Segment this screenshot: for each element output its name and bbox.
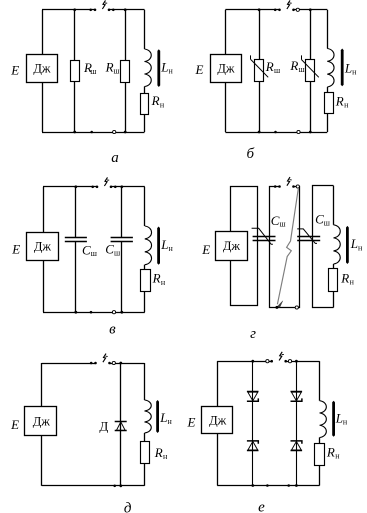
generator box Дж (g) (216, 232, 248, 261)
wire branch 2 vertical (a) (125, 10, 127, 132)
capacitor Csh2 nonlinearity stroke (g) (297, 229, 317, 244)
svg-text:E: E (10, 63, 19, 78)
zener diode bottom: triangle up (e) (248, 441, 258, 450)
svg-text:R: R (152, 271, 161, 286)
inductor core bar (d) (156, 400, 159, 433)
wire load branch upper (d) (144, 363, 146, 400)
svg-text:ш: ш (299, 65, 306, 74)
resistor Rn (g) (329, 269, 338, 292)
wire left vertical upper (a) (42, 10, 44, 55)
wire Rn to bottom rail (v) (144, 292, 146, 312)
svg-text:а: а (111, 150, 119, 166)
svg-text:н: н (160, 100, 165, 109)
svg-text:ш: ш (90, 67, 97, 76)
svg-text:н: н (358, 243, 363, 252)
varistor Rsh1 end tick (b) (250, 55, 252, 59)
zener diode bottom: anode bar (e) (247, 450, 259, 452)
svg-text:Дж: Дж (33, 62, 51, 76)
svg-text:н: н (335, 451, 340, 460)
spark arrow head (g) (277, 301, 283, 307)
svg-text:ш: ш (113, 66, 120, 75)
node dot on bottom rail (a) (90, 131, 93, 134)
junction dot branch1 bottom (a) (73, 131, 76, 134)
capacitor Csh1 nonlinearity stroke (g) (252, 228, 273, 244)
wire top rail right segment (d) (110, 363, 145, 365)
junction dot branch1 bottom (e) (251, 484, 254, 487)
wire branch 2 upper (v) (121, 187, 123, 238)
switch contact dots (left) (91, 186, 94, 189)
wire left vertical upper (v) (43, 187, 45, 232)
svg-text:R: R (265, 59, 274, 74)
junction dot diode branch top (d) (119, 362, 122, 365)
varistor Rsh1 diagonal stroke (b) (251, 60, 268, 78)
wire Rn to bottom rail (d) (144, 464, 146, 486)
zener diode top: anode bar (e) (291, 391, 303, 393)
switch contact dots (right) (292, 185, 295, 188)
inductor Ln coil (a) (145, 49, 152, 87)
generator box Дж (d) (25, 407, 57, 436)
wire Rn to bottom rail (a) (144, 114, 146, 132)
wire left vertical upper (d) (41, 363, 43, 407)
switch blade (279, 352, 282, 361)
zener diode top: anode bar (e) (247, 391, 259, 393)
switch blade (103, 354, 106, 363)
svg-text:ш: ш (114, 248, 121, 257)
wire left vertical lower (d) (41, 435, 43, 485)
wire branch 2 vertical (b) (310, 10, 312, 132)
junction dot branch1 top (v) (74, 185, 77, 188)
svg-text:E: E (195, 62, 204, 77)
zener diode bottom: triangle up (e) (292, 441, 302, 450)
junction dot branch2 top (b) (309, 8, 312, 11)
switch contact dots (left) (274, 185, 277, 188)
switch contact dots (left) (90, 362, 93, 365)
wire left vertical upper (e) (217, 361, 219, 406)
svg-text:н: н (169, 244, 174, 253)
wire top rail left segment (v) (43, 186, 97, 188)
svg-text:Дж: Дж (33, 414, 51, 428)
junction dot branch1 bottom (b) (258, 131, 261, 134)
svg-text:Дж: Дж (217, 62, 235, 76)
svg-text:н: н (350, 278, 355, 287)
svg-text:L: L (160, 60, 168, 75)
svg-text:ш: ш (324, 219, 331, 228)
resistor Rn (d) (141, 442, 150, 464)
inductor Ln coil (b) (327, 49, 334, 87)
wire bottom rail (b) (225, 132, 327, 134)
svg-text:R: R (154, 445, 163, 460)
junction dot branch1 top (e) (251, 360, 254, 363)
varistor Rsh2 end tick (b) (301, 55, 303, 59)
svg-text:E: E (10, 417, 19, 432)
junction dot branch2 bottom (v) (120, 311, 123, 314)
junction dot branch2 bottom (e) (295, 484, 298, 487)
wire bottom rail (v) (43, 312, 145, 314)
svg-text:Дж: Дж (223, 239, 241, 253)
source loop rectangle (g) (231, 187, 258, 306)
resistor Rsh2 (a) (121, 61, 130, 83)
varistor Rsh2 body (b) (306, 60, 315, 82)
wire bottom rail (a) (42, 132, 145, 134)
wire coil to Rn (e) (319, 438, 321, 444)
capacitor Csh2 plates (v) (111, 237, 133, 239)
junction dot branch2 bottom (a) (124, 131, 127, 134)
zener diode bottom: anode bar (e) (291, 450, 303, 452)
junction dot branch2 top (v) (120, 185, 123, 188)
load loop right side upper wire (g) (333, 186, 335, 225)
svg-text:д: д (124, 501, 132, 513)
load loop left/top/bottom sides (g) (313, 186, 334, 308)
wire top rail left segment (b) (225, 9, 279, 11)
zener diode top: cathode bar with hook (e) (247, 398, 258, 401)
junction dot branch1 top (a) (73, 8, 76, 11)
wire top rail left segment (e) (217, 361, 272, 363)
svg-text:R: R (289, 58, 298, 73)
svg-text:ш: ш (274, 66, 281, 75)
junction dot branch1 bottom (v) (74, 311, 77, 314)
switch contact dots (right) (108, 362, 111, 365)
svg-text:R: R (335, 93, 344, 108)
open contact node on bottom rail (b) (297, 130, 300, 133)
svg-text:н: н (169, 67, 174, 76)
wire branch 1 vertical (b) (259, 10, 261, 132)
wire bottom rail (e) (217, 485, 319, 487)
svg-text:Дж: Дж (34, 239, 52, 253)
svg-text:н: н (344, 100, 349, 109)
resistor Rn (a) (141, 94, 149, 115)
generator box Дж (a) (27, 55, 58, 83)
switch contact dots (right) (108, 9, 111, 12)
svg-text:R: R (326, 444, 335, 459)
switch contact dots (right) (292, 9, 295, 12)
wire coil to Rn (g) (333, 264, 335, 269)
wire load branch upper (b) (327, 10, 329, 49)
switch blade (287, 177, 290, 186)
diode D triangle (d) (116, 422, 125, 431)
svg-text:в: в (109, 322, 116, 338)
wire coil to Rn (a) (144, 87, 146, 94)
branch wire (e) (252, 361, 254, 485)
switch contact dots (left) (274, 9, 277, 12)
wire load branch upper (v) (144, 187, 146, 226)
inductor Ln coil (d) (145, 400, 152, 433)
svg-text:н: н (352, 68, 357, 77)
varistor Rsh2 diagonal stroke (b) (302, 60, 319, 78)
svg-text:E: E (11, 241, 20, 256)
svg-text:C: C (315, 211, 324, 226)
svg-text:Дж: Дж (209, 413, 227, 427)
wire top rail right segment (e) (286, 361, 320, 363)
switch contact dots (left) (266, 360, 269, 363)
svg-text:L: L (335, 410, 343, 425)
wire top rail right segment (b) (294, 9, 328, 11)
svg-text:Д: Д (99, 418, 108, 433)
svg-text:н: н (163, 452, 168, 461)
generator box Дж (v) (27, 233, 59, 261)
svg-text:L: L (350, 236, 358, 251)
wire branch 1 vertical (a) (74, 10, 76, 132)
spark arrow landing dot (g) (275, 306, 278, 309)
svg-text:C: C (82, 242, 91, 257)
diode D anode bar (d) (115, 430, 127, 432)
svg-text:R: R (340, 271, 349, 286)
switch contact dots (right) (110, 186, 113, 189)
svg-text:L: L (344, 60, 352, 75)
branch wire (e) (296, 361, 298, 485)
svg-text:E: E (201, 242, 210, 257)
resistor Rsh1 (a) (71, 61, 80, 82)
wire diode branch vertical (d) (120, 363, 122, 486)
wire Rn to bottom rail (b) (327, 113, 329, 132)
svg-text:г: г (250, 326, 256, 342)
inductor core bar (v) (157, 227, 160, 265)
capacitor Csh2 plates (g) (297, 236, 320, 238)
capacitor Csh1 plates (v) (65, 237, 87, 239)
wire left vertical lower (a) (42, 83, 44, 133)
wire branch 1 lower (v) (75, 242, 77, 313)
zener diode top: triangle down (e) (292, 392, 302, 401)
wire top rail right segment (v) (111, 186, 145, 188)
junction dot branch2 top (e) (295, 360, 298, 363)
svg-text:ш: ш (91, 249, 98, 258)
svg-text:ш: ш (280, 219, 287, 228)
wire coil to Rn (d) (144, 433, 146, 441)
wire coil to Rn (v) (144, 265, 146, 270)
zener diode bottom: cathode bar with hook (e) (291, 441, 302, 444)
svg-text:L: L (160, 237, 168, 252)
switch blade (102, 0, 105, 9)
inductor core bar (a) (157, 49, 160, 87)
open contact node on bottom rail (a) (113, 130, 116, 133)
junction dot diode branch bottom (d) (119, 484, 122, 487)
generator box Дж (b) (211, 55, 242, 83)
junction dot branch1 top (b) (258, 8, 261, 11)
svg-text:R: R (151, 93, 160, 108)
inductor Ln coil (v) (145, 226, 152, 265)
generator box Дж (e) (202, 407, 233, 434)
svg-text:н: н (168, 417, 173, 426)
node dot on bottom rail (d) (113, 485, 116, 488)
wire left vertical lower (b) (225, 82, 227, 132)
svg-text:н: н (161, 278, 166, 287)
zener diode top: triangle down (e) (248, 392, 258, 401)
wire left vertical lower (v) (43, 260, 45, 312)
wire coil to Rn (b) (327, 87, 329, 92)
resistor Rn (v) (141, 270, 151, 292)
node dot on bottom rail left (e) (266, 484, 269, 487)
spark discharge arrow (g) (277, 188, 298, 304)
open contact node on bottom rail (v) (112, 311, 115, 314)
svg-text:C: C (105, 242, 114, 257)
wire top rail left segment (d) (42, 363, 96, 365)
svg-text:б: б (247, 146, 255, 162)
wire Rn to bottom (g) (333, 292, 335, 308)
inductor core bar (g) (346, 226, 349, 264)
capacitor Csh1 plates (g) (253, 236, 276, 238)
svg-text:н: н (343, 417, 348, 426)
junction dot branch2 bottom (b) (309, 131, 312, 134)
svg-text:R: R (105, 59, 114, 74)
svg-text:е: е (258, 500, 265, 513)
switch contact dots (left) (89, 9, 92, 12)
wire left vertical upper (b) (225, 10, 227, 55)
wire branch 1 upper (v) (75, 187, 77, 238)
inductor Ln coil (e) (320, 401, 327, 438)
wire load branch upper (e) (319, 361, 321, 401)
svg-text:C: C (271, 213, 280, 228)
diode D cathode bar (d) (115, 421, 127, 423)
wire Rn to bottom rail (e) (319, 465, 321, 485)
wire load branch upper (a) (144, 10, 146, 49)
switch blade (104, 177, 107, 186)
svg-text:L: L (159, 410, 167, 425)
svg-text:E: E (187, 414, 196, 429)
wire left vertical lower (e) (217, 433, 219, 485)
zener diode top: cathode bar with hook (e) (291, 398, 302, 401)
node dot on bottom rail (b) (274, 131, 277, 134)
wire top rail left segment (a) (42, 9, 95, 11)
switch blade (287, 0, 290, 9)
middle loop rectangle with switch gap (g) (270, 187, 300, 308)
resistor Rn (e) (315, 444, 325, 466)
junction dot branch2 top (a) (124, 8, 127, 11)
resistor Rn (b) (325, 93, 334, 114)
inductor core bar (b) (341, 49, 344, 87)
wire bottom rail (d) (42, 485, 145, 487)
node dot on bottom rail right (e) (287, 484, 290, 487)
switch contact dots (right) (284, 360, 287, 363)
wire top rail right segment (a) (109, 9, 145, 11)
wire branch 2 lower (v) (121, 242, 123, 313)
open contact node on middle loop bottom (g) (295, 306, 298, 309)
node dot on bottom rail (v) (90, 311, 93, 314)
zener diode bottom: cathode bar with hook (e) (247, 441, 258, 444)
inductor Ln coil (g) (334, 225, 341, 264)
varistor Rsh1 body (b) (255, 60, 264, 82)
inductor core bar (e) (332, 401, 335, 437)
